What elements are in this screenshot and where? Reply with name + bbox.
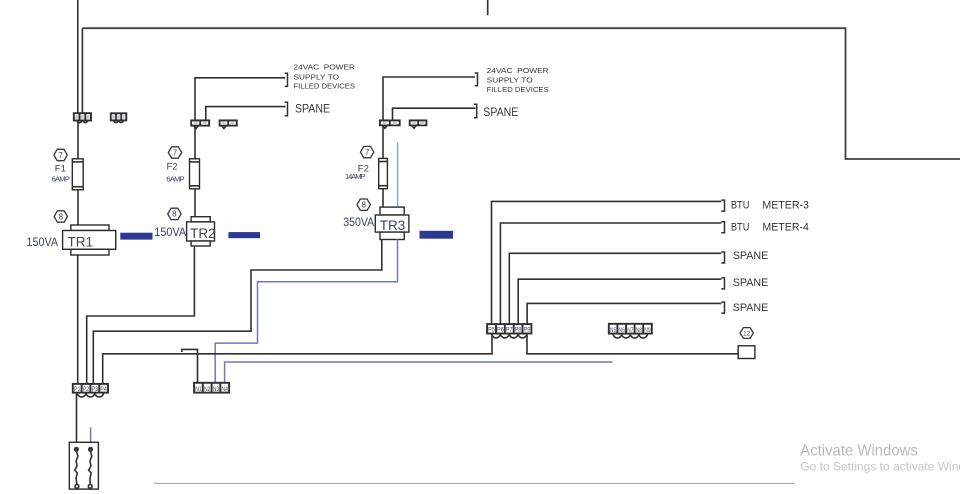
svg-text:SPANE: SPANE: [483, 107, 518, 119]
svg-text:FILLED DEVICES: FILLED DEVICES: [487, 85, 549, 94]
svg-text:N3: N3: [213, 387, 220, 393]
svg-text:12: 12: [743, 330, 751, 337]
svg-text:SPANE: SPANE: [733, 302, 769, 314]
svg-text:P1: P1: [74, 387, 81, 393]
svg-text:P6: P6: [497, 328, 504, 334]
svg-text:7: 7: [58, 151, 63, 160]
svg-text:SPANE: SPANE: [733, 250, 769, 262]
svg-text:P4: P4: [100, 387, 107, 393]
svg-text:SUPPLY TO: SUPPLY TO: [487, 76, 533, 85]
svg-text:P9: P9: [524, 328, 531, 334]
svg-text:150VA: 150VA: [154, 227, 186, 239]
svg-text:P5: P5: [488, 328, 495, 334]
svg-text:BTU: BTU: [731, 221, 750, 233]
svg-text:TR1: TR1: [68, 234, 94, 249]
svg-text:7: 7: [173, 148, 178, 157]
svg-text:24VAC POWER: 24VAC POWER: [487, 66, 550, 75]
svg-text:8: 8: [172, 210, 177, 219]
svg-text:7: 7: [365, 148, 370, 157]
svg-text:TR2: TR2: [190, 226, 216, 241]
svg-text:SUPPLY TO: SUPPLY TO: [294, 72, 340, 81]
svg-text:8: 8: [59, 212, 64, 221]
svg-text:METER-4: METER-4: [762, 221, 809, 233]
svg-text:24VAC POWER: 24VAC POWER: [294, 63, 356, 72]
svg-text:350VA: 350VA: [343, 217, 374, 229]
svg-text:BTU: BTU: [731, 200, 750, 212]
svg-text:6AMP: 6AMP: [166, 175, 184, 184]
svg-text:N9: N9: [644, 328, 651, 334]
svg-text:FILLED DEVICES: FILLED DEVICES: [294, 82, 356, 91]
svg-text:METER-3: METER-3: [762, 200, 809, 212]
svg-text:N2: N2: [204, 387, 211, 393]
svg-text:N5: N5: [610, 328, 617, 334]
svg-text:SPANE: SPANE: [295, 104, 330, 116]
svg-text:F1: F1: [55, 163, 66, 174]
svg-text:Activate Windows: Activate Windows: [800, 442, 918, 459]
svg-text:P2: P2: [83, 387, 90, 393]
svg-text:P8: P8: [515, 328, 522, 334]
svg-text:8: 8: [361, 201, 366, 210]
svg-text:N6: N6: [619, 328, 626, 334]
svg-text:N1: N1: [195, 387, 202, 393]
svg-text:SPANE: SPANE: [733, 277, 769, 289]
svg-text:6AMP: 6AMP: [52, 175, 70, 184]
svg-text:TR3: TR3: [380, 218, 406, 233]
svg-text:N7: N7: [627, 328, 634, 334]
svg-text:P7: P7: [506, 328, 513, 334]
svg-text:Go to Settings to activate Win: Go to Settings to activate Windows: [800, 459, 960, 473]
svg-text:P3: P3: [92, 387, 99, 393]
svg-text:14AMP: 14AMP: [345, 172, 366, 181]
svg-text:N8: N8: [636, 328, 643, 334]
svg-text:150VA: 150VA: [27, 237, 59, 249]
svg-text:F2: F2: [167, 162, 178, 173]
svg-text:N4: N4: [221, 387, 228, 393]
